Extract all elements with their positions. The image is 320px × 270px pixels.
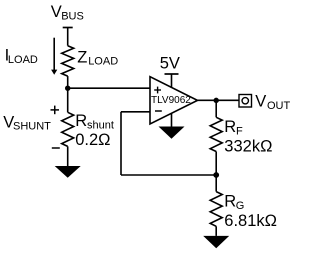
svg-text:R: R	[75, 112, 87, 130]
svg-text:Z: Z	[77, 48, 87, 66]
svg-text:shunt: shunt	[87, 119, 114, 131]
svg-text:0.2Ω: 0.2Ω	[75, 131, 110, 149]
svg-text:LOAD: LOAD	[88, 56, 118, 68]
svg-text:TLV9062: TLV9062	[151, 95, 191, 106]
svg-text:V: V	[255, 93, 266, 111]
svg-text:SHUNT: SHUNT	[13, 121, 51, 133]
svg-text:BUS: BUS	[61, 11, 84, 23]
svg-text:LOAD: LOAD	[8, 54, 38, 66]
svg-text:332kΩ: 332kΩ	[224, 137, 272, 155]
svg-text:R: R	[224, 193, 236, 211]
svg-text:5V: 5V	[160, 55, 180, 73]
svg-text:OUT: OUT	[267, 100, 291, 112]
svg-text:V: V	[51, 3, 62, 21]
svg-text:R: R	[224, 118, 236, 136]
svg-text:6.81kΩ: 6.81kΩ	[224, 212, 277, 230]
svg-text:G: G	[236, 200, 245, 212]
svg-text:F: F	[236, 126, 243, 138]
